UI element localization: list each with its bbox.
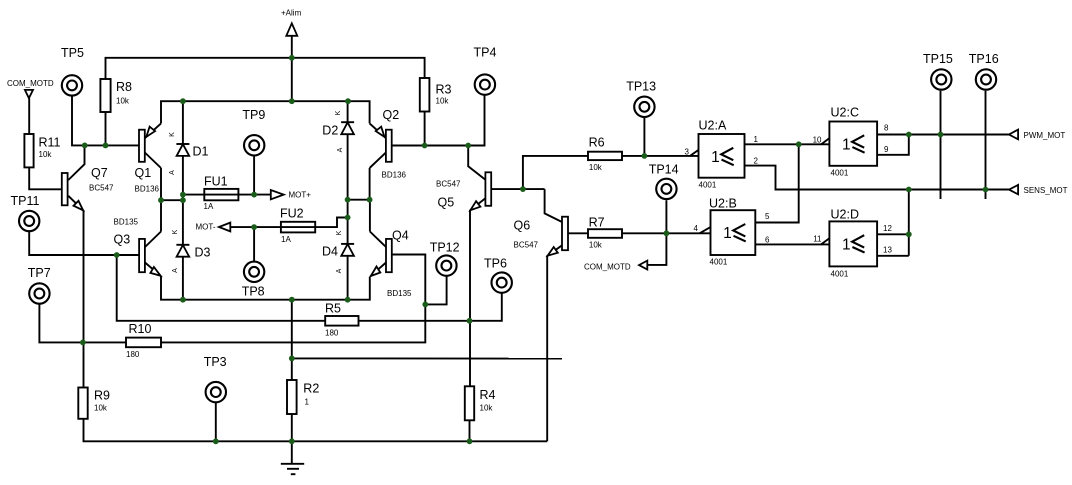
test point TP12	[436, 255, 456, 275]
test point TP13	[634, 97, 654, 117]
svg-text:BD136: BD136	[135, 185, 160, 194]
terminal MOT+	[271, 190, 284, 199]
svg-text:Q3: Q3	[114, 233, 131, 247]
wire TP14 stub	[665, 200, 667, 233]
wire right diode line upper	[347, 101, 349, 122]
svg-text:+Alim: +Alim	[281, 9, 302, 18]
svg-text:D4: D4	[322, 245, 338, 259]
resistor R2	[287, 380, 297, 414]
wire right cross connect	[348, 199, 370, 201]
wire TP16 stub	[985, 91, 987, 199]
wire left diode line upper	[182, 101, 184, 144]
diode D2	[341, 122, 354, 134]
svg-text:8: 8	[884, 124, 889, 133]
svg-text:BC547: BC547	[514, 241, 539, 250]
diode D3	[176, 245, 189, 257]
resistor R3	[420, 78, 430, 112]
svg-text:180: 180	[325, 329, 339, 338]
test point TP16	[976, 69, 996, 89]
svg-text:10: 10	[813, 135, 822, 144]
transistor Q7	[62, 173, 68, 205]
svg-text:A: A	[172, 268, 179, 273]
wire +Alim feed down to bridge rail	[291, 58, 293, 101]
wire Q7 collector	[68, 145, 84, 180]
terminal COM_MOTD left	[25, 90, 33, 98]
svg-text:TP6: TP6	[484, 256, 507, 270]
wire bridge bottom rail	[161, 276, 370, 300]
svg-text:6: 6	[765, 236, 770, 245]
svg-text:K: K	[172, 229, 179, 234]
wire right diode line middle	[347, 134, 349, 244]
svg-text:10k: 10k	[480, 404, 494, 413]
svg-text:1: 1	[723, 225, 732, 242]
wire TP7 to R10 line	[39, 304, 126, 343]
svg-text:R7: R7	[589, 216, 605, 230]
wire node up to R6	[523, 156, 588, 189]
wire left cross connect	[161, 199, 183, 201]
wire R11 bottom to Q7 base	[29, 167, 62, 189]
wire COM_MOTD to R11	[28, 98, 30, 134]
wire U2:D pin13	[877, 255, 909, 257]
svg-text:4001: 4001	[699, 181, 717, 190]
wire MOT- terminal to FU2	[230, 226, 281, 228]
gate U2:C 4001 NOR	[829, 122, 877, 166]
wire R4 bottom lead	[469, 420, 471, 441]
transistor Q5 emitter arrow	[470, 201, 480, 210]
op-amp gate U2:A 4001 NOR	[699, 134, 745, 178]
wire Q5 base to node	[491, 188, 544, 190]
svg-text:Q1: Q1	[135, 166, 152, 180]
gate U2:C input slash	[821, 138, 829, 144]
resistor R11	[24, 134, 33, 167]
resistor R7	[588, 229, 622, 238]
svg-text:R5: R5	[325, 302, 341, 316]
wire Q5 collector	[468, 146, 485, 180]
wire FU1 right lead to MOT+ terminal	[238, 194, 270, 196]
svg-text:BC547: BC547	[436, 180, 461, 189]
wire R7 right lead to U2:B input	[622, 232, 711, 234]
svg-text:R3: R3	[436, 83, 452, 97]
svg-text:1A: 1A	[281, 235, 291, 244]
wire SENS node down to pin13	[908, 190, 910, 256]
transistor Q2	[370, 123, 392, 168]
svg-text:Q7: Q7	[91, 166, 108, 180]
resistor R4	[465, 386, 474, 420]
wire TP11 to Q3 base	[29, 231, 139, 255]
svg-text:2: 2	[754, 157, 759, 166]
svg-text:12: 12	[883, 224, 892, 233]
svg-text:Q2: Q2	[383, 108, 400, 122]
wire Q4 collector up	[369, 200, 371, 232]
svg-text:5: 5	[765, 212, 770, 221]
svg-text:10k: 10k	[39, 150, 53, 159]
svg-text:A: A	[169, 170, 176, 175]
svg-text:TP4: TP4	[474, 45, 497, 59]
svg-text:BC547: BC547	[89, 184, 114, 193]
wire FU2 right lead with jog	[315, 218, 347, 228]
svg-text:TP11: TP11	[11, 194, 40, 208]
svg-text:1: 1	[754, 135, 759, 144]
wire Q6 collector	[545, 189, 562, 222]
wire U2:B pin6 to U2:D pin11	[755, 243, 829, 245]
wire U2:D pin12	[877, 233, 909, 235]
svg-text:R11: R11	[39, 136, 61, 150]
test point TP5	[62, 75, 82, 95]
gate U2:B 4001 NOR	[711, 210, 756, 255]
wire right diode line lower	[347, 256, 349, 300]
transistor Q5	[485, 172, 491, 206]
svg-text:TP8: TP8	[242, 284, 265, 298]
svg-text:1: 1	[842, 236, 851, 253]
svg-text:TP14: TP14	[649, 162, 679, 176]
wire R10 right lead up to Q4 base node	[161, 304, 425, 342]
test point TP14	[656, 179, 676, 199]
svg-text:U2:A: U2:A	[699, 119, 727, 133]
svg-text:1: 1	[842, 136, 851, 153]
wire R2 top lead	[291, 358, 293, 380]
svg-text:TP13: TP13	[626, 79, 656, 93]
transistor Q7 emitter arrow	[74, 201, 84, 211]
wire bottom ground rail	[84, 419, 548, 442]
wire Q2 collector down	[369, 168, 371, 200]
wire FU1 left lead	[183, 194, 204, 196]
wire Q6 emitter down to rail	[547, 245, 562, 441]
svg-text:TP5: TP5	[61, 46, 84, 60]
svg-text:FU1: FU1	[204, 175, 228, 189]
wire Q6 base to R7	[568, 232, 590, 234]
gate U2:B input slash	[700, 227, 711, 233]
svg-text:SENS_MOT: SENS_MOT	[1024, 186, 1068, 195]
wire left diode line lower	[182, 257, 184, 300]
ground symbol	[281, 441, 304, 474]
wire Q2 base to TP4	[386, 95, 485, 145]
svg-text:Q4: Q4	[392, 229, 409, 243]
svg-text:BD135: BD135	[114, 218, 139, 227]
wire U2:A pin2 to SENS_MOT	[745, 166, 1010, 190]
svg-text:R8: R8	[116, 80, 132, 94]
test point TP4	[475, 74, 495, 94]
svg-text:U2:B: U2:B	[709, 197, 737, 211]
svg-text:Q5: Q5	[438, 196, 455, 210]
svg-text:R2: R2	[303, 382, 319, 396]
transistor Q4	[370, 232, 392, 277]
terminal PWM_MOT	[1009, 130, 1018, 140]
test point TP3	[206, 382, 226, 402]
wire R6 right lead to U2:A input	[622, 155, 699, 157]
wire U2:C pin8 to PWM_MOT	[877, 134, 1009, 136]
test point TP7	[29, 283, 49, 303]
svg-text:FU2: FU2	[280, 207, 304, 221]
gate U2:D 4001 NOR	[829, 221, 877, 266]
svg-text:4001: 4001	[831, 270, 849, 279]
svg-text:TP16: TP16	[969, 52, 999, 66]
terminal COM_MOTD right	[639, 261, 647, 270]
wire R5 right lead	[359, 320, 470, 322]
wire TP12 stub	[425, 276, 446, 304]
wire node line right of R2	[292, 357, 562, 359]
fuse FU1	[204, 189, 238, 200]
wire TP9 stub	[253, 156, 255, 195]
svg-text:4001: 4001	[831, 169, 849, 178]
resistor R10	[126, 338, 161, 348]
wire R8 bottom lead	[105, 112, 107, 145]
svg-text:10k: 10k	[436, 97, 450, 106]
svg-text:K: K	[336, 230, 343, 235]
svg-text:R4: R4	[480, 388, 496, 402]
svg-text:4: 4	[694, 224, 699, 233]
svg-text:D3: D3	[195, 246, 211, 260]
wire TP3 stub	[215, 403, 217, 442]
wire COM_MOTD right branch	[647, 233, 666, 265]
svg-text:U2:D: U2:D	[831, 208, 859, 222]
svg-text:D2: D2	[322, 124, 338, 138]
wire TP15 stub	[940, 91, 942, 199]
svg-text:K: K	[335, 110, 342, 115]
terminal MOT-	[219, 223, 230, 232]
test point TP9	[244, 135, 264, 155]
wire R9 top lead	[83, 342, 85, 387]
svg-text:10k: 10k	[116, 97, 130, 106]
svg-text:1: 1	[711, 149, 720, 166]
transistor Q6	[562, 217, 568, 251]
wire Q3 collector up	[160, 200, 162, 231]
power terminal +Alim	[286, 23, 297, 58]
svg-text:10k: 10k	[589, 163, 603, 172]
wire U2:C pin9 jog	[877, 135, 909, 155]
test point TP15	[931, 69, 951, 89]
svg-text:TP15: TP15	[923, 52, 953, 66]
svg-text:TP9: TP9	[242, 108, 265, 122]
svg-text:PWM_MOT: PWM_MOT	[1024, 131, 1066, 140]
svg-text:180: 180	[126, 350, 140, 359]
wire R3 bottom lead	[424, 112, 426, 146]
svg-text:TP7: TP7	[28, 266, 51, 280]
svg-text:1A: 1A	[204, 202, 214, 211]
wire Q4 base node up	[392, 255, 425, 305]
wire Q7 emitter down	[68, 196, 83, 343]
svg-text:R6: R6	[589, 135, 605, 149]
svg-text:TP3: TP3	[204, 355, 227, 369]
svg-text:COM_MOTD: COM_MOTD	[584, 263, 631, 272]
test point TP11	[19, 211, 39, 231]
svg-text:BD136: BD136	[382, 171, 407, 180]
test point TP8	[244, 262, 264, 282]
svg-text:4001: 4001	[710, 258, 728, 267]
svg-text:K: K	[169, 132, 176, 137]
wire TP8 stub	[253, 227, 255, 261]
svg-text:9: 9	[884, 145, 889, 154]
wire Q1 collector to MOT+ node	[160, 168, 162, 200]
svg-text:3: 3	[685, 147, 690, 156]
wire left diode line middle	[182, 156, 184, 245]
wire Q5 emitter down to R4	[470, 198, 485, 386]
svg-text:COM_MOTD: COM_MOTD	[7, 79, 54, 88]
svg-text:TP12: TP12	[430, 240, 460, 254]
wire center node down from bridge to R2 line	[291, 300, 293, 359]
wire +Alim top rail R8 to R3	[106, 58, 425, 79]
transistor Q3	[139, 232, 161, 277]
wire U2:A pin1 to U2:C pin10	[745, 143, 830, 145]
gate U2:A input slash	[690, 150, 698, 156]
svg-text:MOT-: MOT-	[196, 223, 216, 232]
svg-text:MOT+: MOT+	[289, 191, 312, 200]
resistor R5	[325, 316, 358, 326]
svg-text:A: A	[336, 268, 343, 273]
svg-text:U2:C: U2:C	[831, 106, 859, 120]
svg-text:1: 1	[305, 398, 310, 407]
wire TP5 to Q1 base	[72, 96, 139, 146]
gate U2:D input slash	[821, 238, 829, 244]
resistor R6	[588, 152, 622, 160]
diode D1	[176, 144, 189, 156]
svg-text:BD135: BD135	[387, 289, 412, 298]
fuse FU2	[281, 222, 315, 233]
resistor R8	[100, 79, 110, 112]
svg-text:D1: D1	[193, 145, 209, 159]
svg-text:10k: 10k	[589, 240, 603, 249]
svg-text:10k: 10k	[94, 404, 108, 413]
terminal SENS_MOT	[1009, 185, 1018, 194]
wire TP13 stub	[643, 117, 645, 156]
svg-text:R9: R9	[94, 389, 110, 403]
wire R2 bottom lead	[291, 414, 293, 441]
svg-text:13: 13	[883, 246, 892, 255]
wire bridge top rail	[161, 101, 370, 123]
wire pin1 node down to U2:B pin5	[755, 144, 798, 222]
svg-text:R10: R10	[129, 322, 152, 336]
svg-text:Q6: Q6	[514, 219, 531, 233]
svg-text:11: 11	[813, 235, 822, 244]
transistor Q1	[139, 123, 161, 168]
svg-text:A: A	[337, 147, 344, 152]
test point TP6	[492, 272, 512, 292]
transistor Q6 emitter arrow	[548, 247, 558, 256]
diode D4	[341, 244, 354, 256]
resistor R9	[78, 388, 87, 419]
wire Q3 base node to R5	[117, 255, 326, 321]
wire TP6 stub	[470, 293, 502, 321]
